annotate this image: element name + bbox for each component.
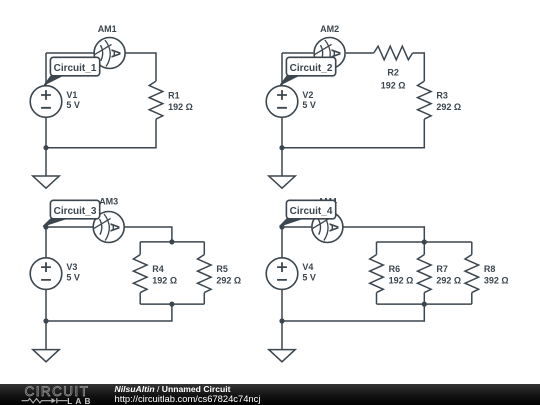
footer attribution text: [115, 385, 231, 395]
wire R4 top stub: [139, 242, 141, 255]
ground: [33, 176, 59, 188]
svg-text:R8: R8: [484, 264, 496, 274]
ammeter AM2: [314, 24, 345, 69]
wire V1 top to AM1: [46, 52, 94, 54]
label callout Circuit_2: [280, 57, 335, 85]
wire V2 top to AM2: [282, 52, 313, 54]
voltage source V2: [266, 86, 316, 118]
svg-text:R4: R4: [152, 264, 164, 274]
wire R7 bottom stub: [423, 293, 425, 305]
wire AM3 to parallel top: [124, 227, 172, 242]
wire V2 bottom stub: [281, 117, 283, 147]
wire AM4 to parallel top: [343, 227, 424, 242]
wire R2 to R3 top: [413, 53, 425, 81]
resistor R8: [465, 255, 509, 293]
svg-text:R3: R3: [436, 91, 448, 101]
svg-text:292 Ω: 292 Ω: [216, 276, 241, 286]
wire ground stem: [45, 148, 47, 176]
wire R4 bottom stub: [139, 293, 141, 305]
svg-text:Circuit_4: Circuit_4: [290, 206, 333, 217]
svg-text:Circuit_2: Circuit_2: [290, 63, 333, 74]
wire R6 bottom stub: [376, 293, 378, 305]
svg-text:R5: R5: [216, 264, 228, 274]
ammeter AM4: [312, 196, 343, 242]
node V2- junction: [279, 145, 284, 150]
wire V4 top to AM4: [282, 226, 312, 228]
resistor R5: [198, 255, 242, 293]
node parallel bottom: [169, 302, 174, 307]
wire V3 top to AM3: [46, 226, 93, 228]
svg-text:292 Ω: 292 Ω: [436, 276, 461, 286]
wire R1 bottom rail: [46, 119, 156, 148]
ground: [269, 176, 295, 188]
label callout Circuit_3: [43, 200, 100, 226]
wire V1 bottom stub: [45, 117, 47, 147]
ground: [269, 350, 295, 362]
svg-text:A: A: [326, 223, 341, 233]
node V3- junction: [43, 318, 48, 323]
wire R5 top stub: [203, 242, 205, 255]
svg-text:R6: R6: [389, 264, 401, 274]
wire V3 top stub: [45, 227, 47, 258]
wire V4 top stub: [281, 227, 283, 258]
wire V2 top stub: [281, 53, 283, 86]
wire R6 top stub: [376, 242, 378, 255]
node V1- junction: [43, 145, 48, 150]
CircuitLab logo: [20, 384, 140, 405]
wire ground stem: [281, 321, 283, 350]
svg-text:R2: R2: [387, 68, 399, 78]
footer url: [115, 394, 261, 404]
wire parallel to V3 bottom: [46, 304, 172, 321]
node parallel top: [422, 239, 427, 244]
wire R5 bottom stub: [203, 293, 205, 305]
svg-text:R7: R7: [436, 264, 448, 274]
svg-text:A: A: [108, 223, 123, 233]
node parallel top: [169, 239, 174, 244]
node parallel bottom: [422, 302, 427, 307]
svg-text:LAB: LAB: [67, 395, 93, 405]
wire R8 bottom stub: [471, 293, 473, 305]
wire parallel bottom rail: [140, 303, 204, 305]
wire parallel top rail: [140, 241, 204, 243]
resistor R4: [133, 255, 177, 293]
node V4- junction: [279, 318, 284, 323]
svg-text:5 V: 5 V: [66, 272, 80, 282]
ammeter AM1: [94, 24, 125, 69]
svg-text:192 Ω: 192 Ω: [168, 102, 193, 112]
label callout Circuit_1: [44, 57, 99, 85]
svg-text:V1: V1: [66, 90, 77, 100]
footer bar: [0, 384, 540, 405]
label callout Circuit_4: [280, 200, 336, 226]
wire V1 top stub: [45, 53, 47, 86]
resistor R6: [370, 255, 414, 293]
svg-text:Circuit_1: Circuit_1: [54, 63, 97, 74]
resistor R7: [418, 255, 462, 293]
svg-text:V4: V4: [302, 262, 313, 272]
svg-text:V3: V3: [66, 262, 77, 272]
svg-text:192 Ω: 192 Ω: [152, 276, 177, 286]
ammeter AM3: [93, 196, 124, 242]
svg-text:AM3: AM3: [99, 196, 118, 206]
wire ground stem: [45, 321, 47, 350]
svg-text:V2: V2: [302, 90, 313, 100]
voltage source V4: [266, 258, 316, 290]
svg-text:R1: R1: [168, 91, 180, 101]
wire parallel to V4 bottom: [282, 304, 424, 321]
wire parallel top rail: [377, 241, 472, 243]
node V4+ corner: [279, 224, 284, 229]
svg-text:A: A: [109, 49, 124, 59]
resistor R1: [149, 81, 193, 119]
wire ground stem: [281, 148, 283, 176]
wire parallel bottom rail: [377, 303, 472, 305]
resistor R2: [374, 46, 413, 90]
svg-text:392 Ω: 392 Ω: [484, 276, 509, 286]
svg-text:AM1: AM1: [98, 24, 117, 34]
resistor R3: [418, 81, 462, 119]
wire AM1 to R1 top: [125, 53, 156, 81]
svg-text:5 V: 5 V: [302, 100, 316, 110]
svg-text:292 Ω: 292 Ω: [436, 102, 461, 112]
svg-text:5 V: 5 V: [66, 100, 80, 110]
voltage source V1: [30, 86, 80, 118]
wire AM2 to R2: [346, 52, 374, 54]
node V3+ corner: [43, 224, 48, 229]
wire R3 bottom rail: [282, 119, 424, 148]
voltage source V3: [30, 258, 80, 290]
svg-text:AM2: AM2: [320, 24, 339, 34]
svg-text:192 Ω: 192 Ω: [381, 80, 406, 90]
svg-text:5 V: 5 V: [302, 272, 316, 282]
ground: [33, 350, 59, 362]
svg-text:Circuit_3: Circuit_3: [54, 206, 97, 217]
wire R7 top stub: [423, 242, 425, 255]
svg-text:192 Ω: 192 Ω: [389, 276, 414, 286]
wire V4 bottom stub: [281, 289, 283, 321]
wire R8 top stub: [471, 242, 473, 255]
wire V3 bottom stub: [45, 289, 47, 321]
